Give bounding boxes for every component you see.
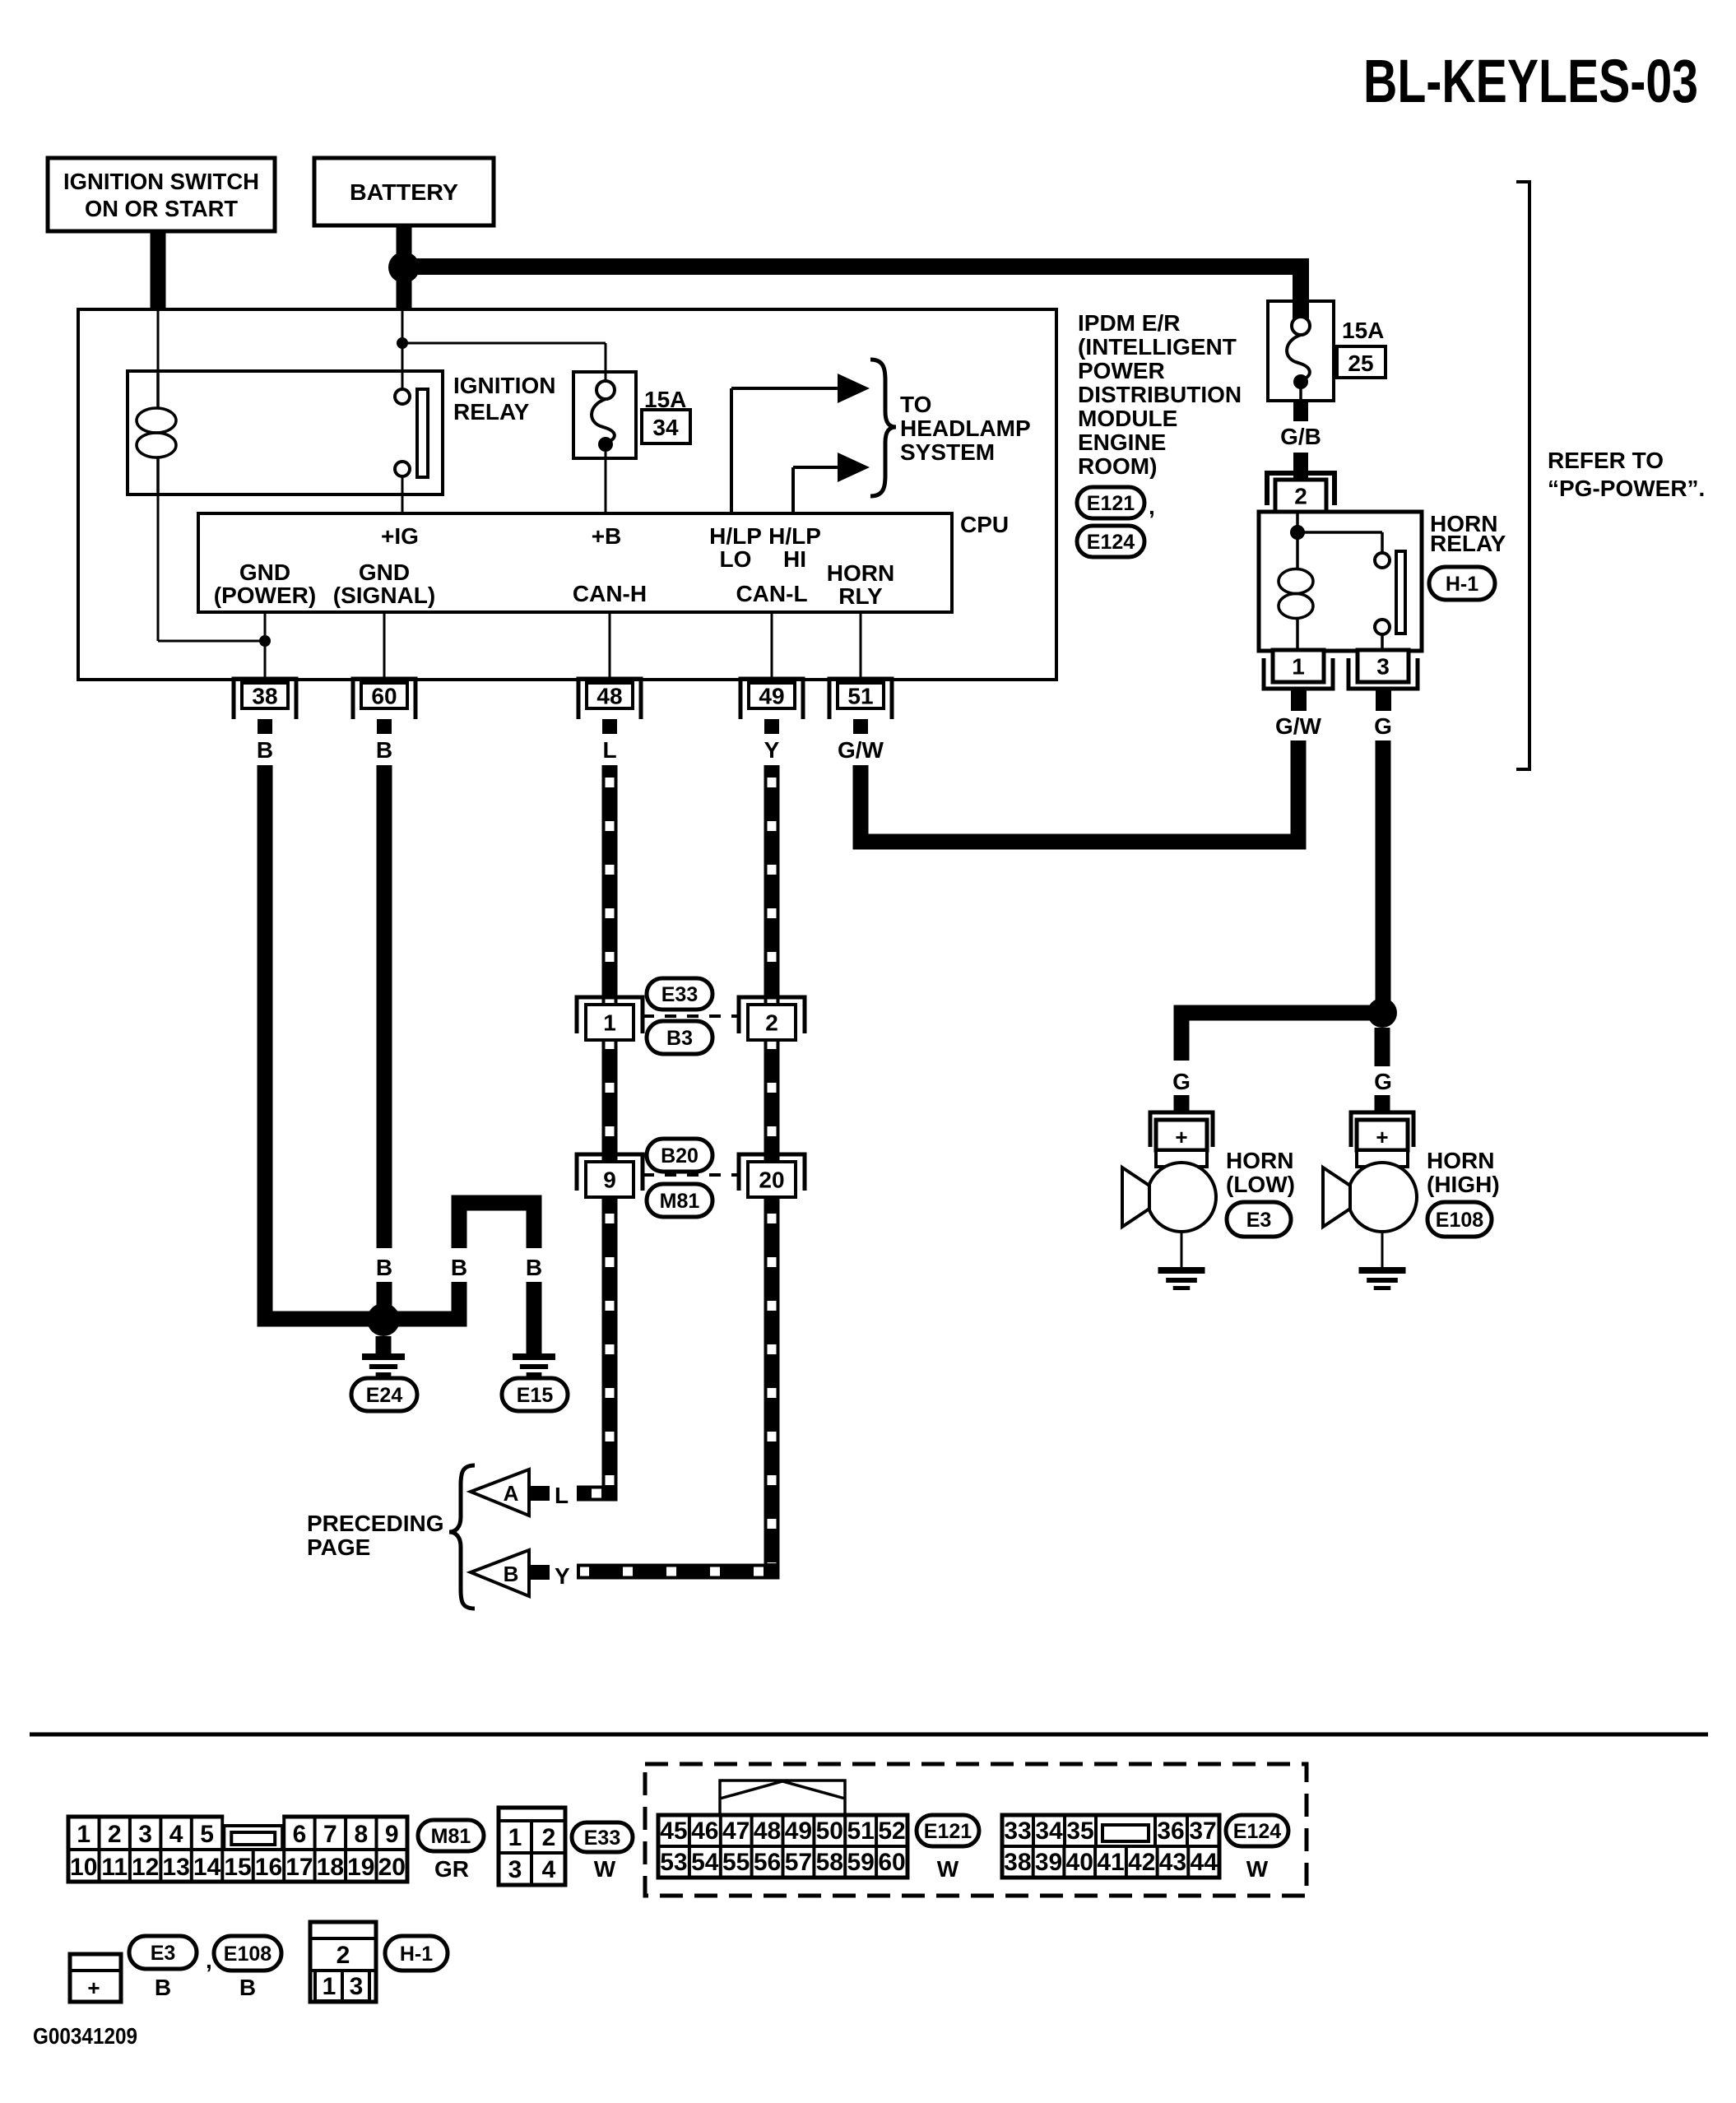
svg-text:(SIGNAL): (SIGNAL) xyxy=(333,583,435,608)
svg-text:56: 56 xyxy=(754,1849,781,1876)
svg-text:40: 40 xyxy=(1066,1849,1093,1876)
svg-text:49: 49 xyxy=(785,1817,812,1845)
svg-text:M81: M81 xyxy=(431,1825,471,1848)
svg-text:1: 1 xyxy=(603,1010,616,1036)
svg-text:HI: HI xyxy=(783,546,806,572)
svg-text:57: 57 xyxy=(785,1849,812,1876)
svg-text:GND: GND xyxy=(239,559,290,585)
svg-text:3: 3 xyxy=(350,1973,364,2000)
svg-text:58: 58 xyxy=(816,1849,843,1876)
svg-text:G/W: G/W xyxy=(838,737,884,763)
svg-text:60: 60 xyxy=(878,1849,905,1876)
svg-text:B: B xyxy=(257,737,273,763)
svg-text:H-1: H-1 xyxy=(1446,573,1478,596)
svg-text:15: 15 xyxy=(224,1854,251,1881)
svg-text:W: W xyxy=(937,1856,959,1882)
svg-text:A: A xyxy=(504,1481,519,1506)
svg-text:3: 3 xyxy=(138,1821,152,1848)
svg-text:+B: +B xyxy=(592,523,622,549)
svg-text:B: B xyxy=(376,737,392,763)
svg-text:25: 25 xyxy=(1348,350,1373,376)
svg-text:44: 44 xyxy=(1190,1849,1218,1876)
svg-text:LO: LO xyxy=(720,546,752,572)
svg-text:2: 2 xyxy=(1294,484,1307,509)
svg-text:REFER TO: REFER TO xyxy=(1548,448,1664,473)
svg-text:PRECEDING: PRECEDING xyxy=(307,1511,443,1536)
svg-text:2: 2 xyxy=(337,1942,350,1969)
svg-text:53: 53 xyxy=(660,1849,687,1876)
svg-text:16: 16 xyxy=(255,1854,282,1881)
svg-text:+: + xyxy=(1376,1125,1388,1149)
svg-text:35: 35 xyxy=(1066,1817,1093,1845)
svg-text:E33: E33 xyxy=(661,983,698,1006)
svg-text:50: 50 xyxy=(816,1817,843,1845)
svg-text:4: 4 xyxy=(169,1821,183,1848)
svg-text:B: B xyxy=(451,1255,467,1280)
svg-text:(INTELLIGENT: (INTELLIGENT xyxy=(1078,334,1237,360)
svg-text:60: 60 xyxy=(371,684,397,709)
svg-text:20: 20 xyxy=(759,1168,784,1193)
svg-text:IPDM E/R: IPDM E/R xyxy=(1078,310,1180,336)
svg-text:55: 55 xyxy=(722,1849,750,1876)
svg-text:E3: E3 xyxy=(151,1942,176,1965)
svg-text:H/LP: H/LP xyxy=(709,523,762,549)
svg-text:BATTERY: BATTERY xyxy=(350,179,458,205)
svg-text:33: 33 xyxy=(1004,1817,1031,1845)
svg-text:(POWER): (POWER) xyxy=(214,583,316,608)
svg-text:B: B xyxy=(504,1562,519,1586)
svg-text:41: 41 xyxy=(1097,1849,1124,1876)
svg-text:W: W xyxy=(594,1856,616,1882)
svg-text:CAN-L: CAN-L xyxy=(736,581,807,606)
svg-text:B: B xyxy=(376,1255,392,1280)
svg-text:34: 34 xyxy=(652,415,679,440)
svg-text:19: 19 xyxy=(347,1854,374,1881)
svg-text:34: 34 xyxy=(1035,1817,1063,1845)
svg-text:36: 36 xyxy=(1157,1817,1184,1845)
svg-text:ENGINE: ENGINE xyxy=(1078,429,1166,455)
svg-text:GND: GND xyxy=(359,559,410,585)
svg-text:G/B: G/B xyxy=(1280,424,1321,449)
svg-text:B: B xyxy=(155,1975,171,2000)
svg-text:17: 17 xyxy=(285,1854,313,1881)
svg-text:Y: Y xyxy=(764,737,780,763)
svg-text:18: 18 xyxy=(317,1854,344,1881)
svg-text:L: L xyxy=(555,1483,569,1508)
svg-text:1: 1 xyxy=(77,1821,91,1848)
svg-text:2: 2 xyxy=(108,1821,122,1848)
svg-text:H/LP: H/LP xyxy=(768,523,821,549)
svg-text:G: G xyxy=(1172,1069,1191,1094)
svg-text:48: 48 xyxy=(596,684,622,709)
svg-text:46: 46 xyxy=(691,1817,718,1845)
svg-text:G00341209: G00341209 xyxy=(33,2023,137,2049)
svg-text:CAN-H: CAN-H xyxy=(573,581,647,606)
svg-text:39: 39 xyxy=(1035,1849,1062,1876)
svg-text:9: 9 xyxy=(385,1821,399,1848)
svg-text:G/W: G/W xyxy=(1275,713,1322,739)
svg-text:49: 49 xyxy=(759,684,784,709)
svg-text:+IG: +IG xyxy=(381,523,419,549)
svg-text:,: , xyxy=(1149,494,1155,519)
svg-text:3: 3 xyxy=(508,1856,522,1883)
svg-text:E33: E33 xyxy=(584,1827,620,1850)
svg-text:G: G xyxy=(1374,1069,1392,1094)
svg-text:45: 45 xyxy=(660,1817,687,1845)
svg-text:HORN: HORN xyxy=(827,560,894,586)
svg-text:6: 6 xyxy=(293,1821,307,1848)
svg-text:RLY: RLY xyxy=(838,583,883,609)
svg-text:SYSTEM: SYSTEM xyxy=(900,439,995,465)
svg-text:MODULE: MODULE xyxy=(1078,406,1177,431)
svg-text:B20: B20 xyxy=(661,1144,699,1168)
svg-text:1: 1 xyxy=(508,1824,522,1851)
svg-text:B: B xyxy=(526,1255,542,1280)
svg-text:12: 12 xyxy=(132,1854,159,1881)
svg-text:5: 5 xyxy=(200,1821,214,1848)
svg-text:E24: E24 xyxy=(366,1384,403,1407)
svg-text:37: 37 xyxy=(1189,1817,1216,1845)
svg-text:43: 43 xyxy=(1159,1849,1186,1876)
svg-text:54: 54 xyxy=(691,1849,719,1876)
svg-text:E121: E121 xyxy=(1087,492,1135,515)
svg-text:DISTRIBUTION: DISTRIBUTION xyxy=(1078,382,1242,407)
svg-text:CPU: CPU xyxy=(960,512,1009,537)
svg-text:E124: E124 xyxy=(1233,1820,1281,1843)
svg-text:2: 2 xyxy=(542,1824,556,1851)
svg-text:2: 2 xyxy=(765,1010,778,1036)
svg-text:48: 48 xyxy=(754,1817,781,1845)
svg-text:3: 3 xyxy=(1376,654,1390,680)
svg-text:E108: E108 xyxy=(1436,1209,1483,1232)
svg-text:H-1: H-1 xyxy=(400,1943,433,1966)
svg-text:BL-KEYLES-03: BL-KEYLES-03 xyxy=(1363,47,1698,115)
svg-text:47: 47 xyxy=(722,1817,750,1845)
svg-text:ON OR START: ON OR START xyxy=(85,196,238,221)
svg-text:HEADLAMP: HEADLAMP xyxy=(900,415,1031,441)
svg-text:51: 51 xyxy=(847,1817,875,1845)
svg-text:(HIGH): (HIGH) xyxy=(1427,1172,1500,1197)
svg-text:11: 11 xyxy=(101,1854,128,1881)
svg-text:G: G xyxy=(1374,713,1392,739)
svg-text:14: 14 xyxy=(193,1854,221,1881)
svg-text:RELAY: RELAY xyxy=(453,399,530,425)
svg-text:52: 52 xyxy=(878,1817,905,1845)
svg-text:GR: GR xyxy=(434,1856,469,1882)
svg-text:7: 7 xyxy=(323,1821,337,1848)
svg-text:E108: E108 xyxy=(224,1943,272,1966)
svg-text:Y: Y xyxy=(555,1563,570,1589)
svg-text:10: 10 xyxy=(70,1854,97,1881)
svg-text:38: 38 xyxy=(1004,1849,1031,1876)
svg-text:PAGE: PAGE xyxy=(307,1534,370,1560)
svg-text:(LOW): (LOW) xyxy=(1226,1172,1295,1197)
svg-text:1: 1 xyxy=(1292,654,1305,680)
svg-text:13: 13 xyxy=(162,1854,189,1881)
svg-text:HORN: HORN xyxy=(1226,1148,1293,1173)
svg-text:B3: B3 xyxy=(666,1027,693,1050)
svg-text:B: B xyxy=(239,1975,256,2000)
svg-text:59: 59 xyxy=(847,1849,875,1876)
svg-text:42: 42 xyxy=(1128,1849,1155,1876)
svg-text:IGNITION: IGNITION xyxy=(453,373,555,398)
svg-text:ROOM): ROOM) xyxy=(1078,453,1157,479)
svg-text:+: + xyxy=(87,1975,100,2000)
svg-text:POWER: POWER xyxy=(1078,358,1165,383)
svg-text:RELAY: RELAY xyxy=(1430,531,1506,556)
svg-text:E124: E124 xyxy=(1087,531,1135,554)
svg-text:38: 38 xyxy=(252,684,277,709)
svg-text:E15: E15 xyxy=(517,1384,554,1407)
svg-text:51: 51 xyxy=(847,684,873,709)
svg-text:9: 9 xyxy=(603,1168,616,1193)
svg-text:M81: M81 xyxy=(660,1190,700,1213)
svg-text:IGNITION SWITCH: IGNITION SWITCH xyxy=(63,169,259,194)
svg-text:4: 4 xyxy=(542,1856,556,1883)
svg-text:TO: TO xyxy=(900,392,931,417)
svg-text:“PG-POWER”.: “PG-POWER”. xyxy=(1548,476,1705,501)
svg-text:20: 20 xyxy=(378,1854,406,1881)
svg-text:W: W xyxy=(1246,1856,1269,1882)
svg-text:+: + xyxy=(1175,1125,1187,1149)
svg-text:15A: 15A xyxy=(1342,318,1384,343)
svg-text:8: 8 xyxy=(354,1821,368,1848)
svg-text:1: 1 xyxy=(323,1973,337,2000)
svg-text:,: , xyxy=(206,1947,212,1973)
svg-text:L: L xyxy=(602,737,616,763)
svg-text:HORN: HORN xyxy=(1427,1148,1494,1173)
svg-text:E3: E3 xyxy=(1246,1209,1272,1232)
svg-text:E121: E121 xyxy=(924,1820,972,1843)
